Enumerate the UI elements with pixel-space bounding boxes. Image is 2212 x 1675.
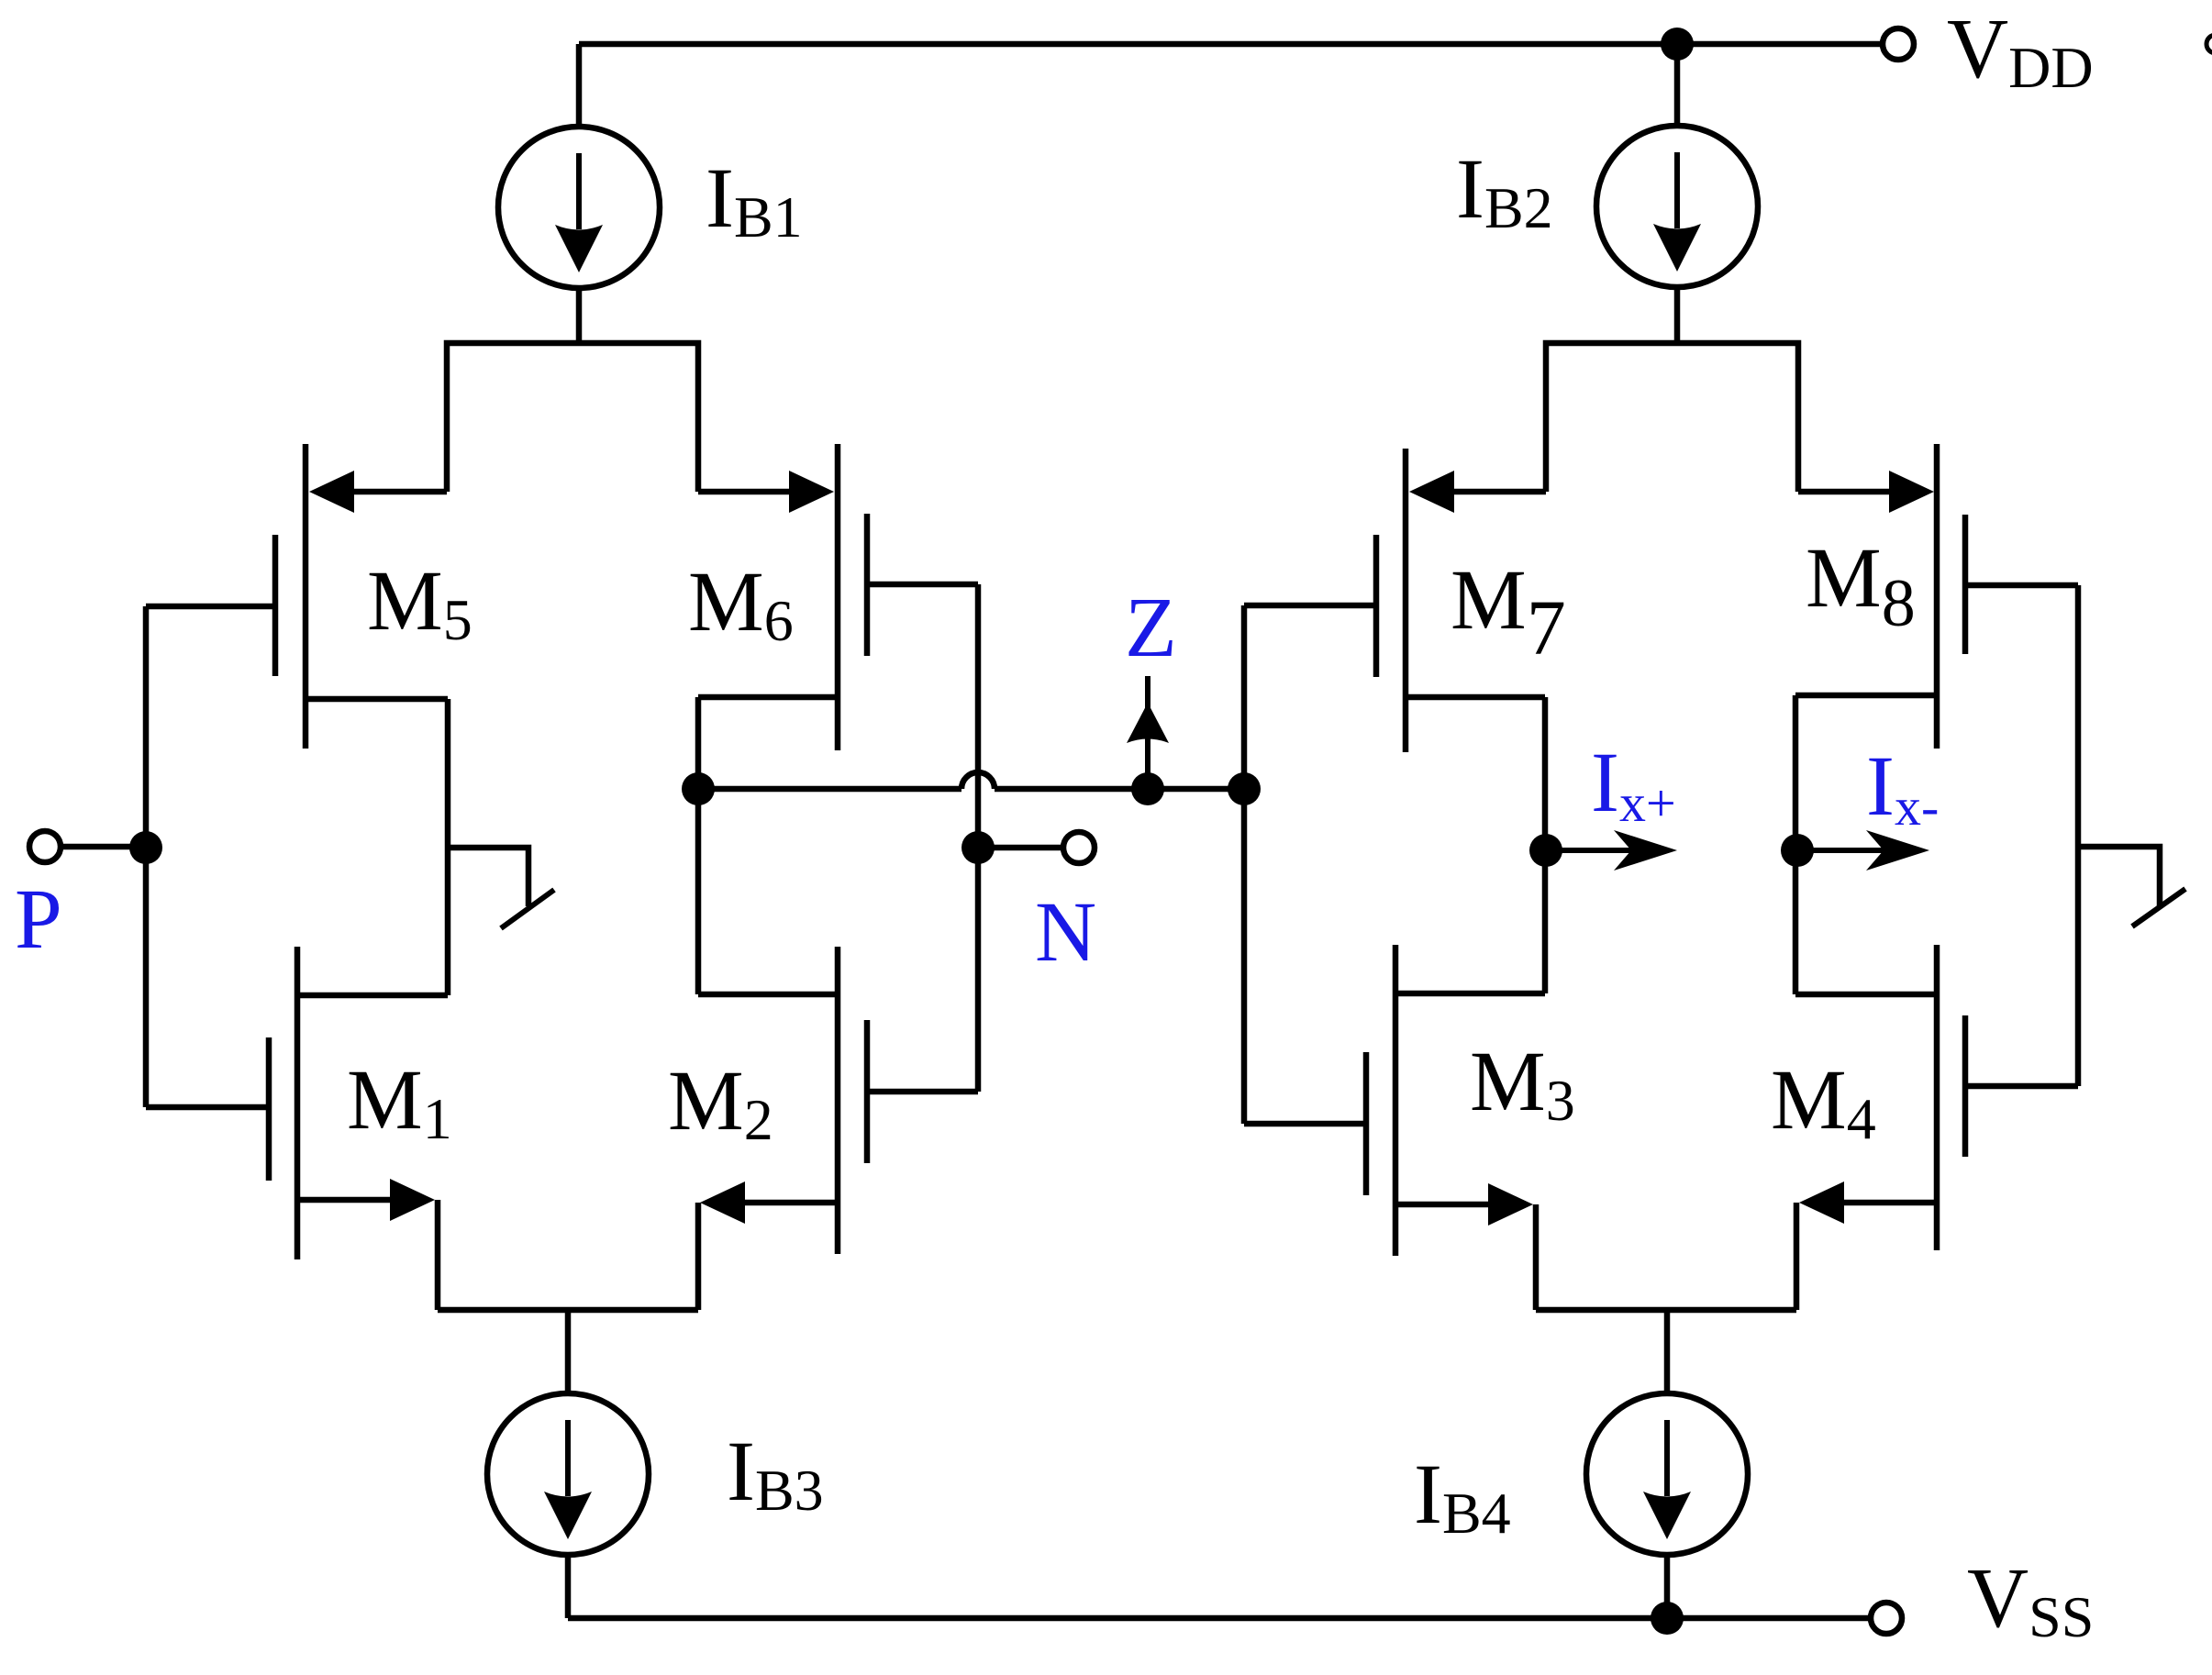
transistor M8 (1795, 444, 2078, 749)
transistor M4 (1795, 945, 2078, 1250)
svg-text:M8: M8 (1806, 531, 1916, 641)
transistor M7 (1244, 449, 1546, 752)
svg-text:M3: M3 (1470, 1035, 1575, 1133)
wire M3 source drop (1533, 1204, 1540, 1310)
wire Z to M7 M3 gate line (1241, 605, 1248, 1124)
terminal N circle (1063, 832, 1095, 863)
arrow Z output indicator (1127, 676, 1169, 789)
wire M1 source drop (435, 1200, 441, 1310)
wire right tail bus (1536, 1307, 1796, 1314)
wire Z horizontal right segment (995, 786, 1244, 793)
node P junction dot (129, 831, 162, 864)
node VDD junction dot (1661, 28, 1694, 61)
wire VSS rail (568, 1615, 1871, 1622)
wire left tail bus (438, 1307, 698, 1314)
node Z junction dot at gate line (1228, 772, 1261, 805)
wire P gate line (143, 606, 150, 1107)
wire M8 M4 gate line (2075, 585, 2082, 1086)
svg-text:IB3: IB3 (727, 1425, 824, 1523)
wire P stub (61, 844, 146, 850)
arrow Ix- current (1797, 830, 1929, 871)
svg-text:M6: M6 (688, 555, 794, 653)
svg-text:N: N (1035, 885, 1096, 980)
bulk slash mark right (2132, 889, 2185, 926)
svg-text:P: P (15, 872, 62, 967)
wire IB2 top stem (1674, 44, 1681, 128)
wire N stub (978, 845, 1062, 851)
wire hop over N line (961, 772, 995, 789)
current source IB4 (1586, 1393, 1748, 1555)
wire IB2 output bar (1546, 343, 1798, 492)
transistor M1 (146, 947, 448, 1259)
terminal VDD circle (1883, 28, 1914, 60)
svg-text:M2: M2 (668, 1054, 773, 1152)
node Z junction dot at M6 drain wire (682, 772, 715, 805)
wire N gate line (975, 584, 982, 1092)
node Ix- junction dot (1781, 834, 1814, 867)
wire VDD rail (579, 41, 1884, 48)
wire IB3 top stem (565, 1310, 572, 1395)
wire IB4 top stem (1664, 1310, 1671, 1395)
wire M5 drain to M1 drain (445, 699, 451, 995)
node VSS junction dot (1651, 1602, 1684, 1635)
current source IB2 (1596, 126, 1758, 287)
wire left bulk branch (448, 848, 528, 906)
arrow Ix+ current (1546, 830, 1677, 871)
wire M2 source drop (695, 1203, 702, 1310)
wire IB4 bottom stem (1664, 1553, 1671, 1618)
svg-text:M5: M5 (367, 554, 472, 652)
svg-text:VDD: VDD (1947, 2, 2094, 100)
node Ix+ junction dot (1529, 834, 1562, 867)
svg-text:IB1: IB1 (706, 151, 803, 250)
svg-text:IB4: IB4 (1414, 1448, 1511, 1546)
wire M8 drain to M4 drain (1793, 695, 1799, 994)
current source IB3 (487, 1393, 649, 1555)
svg-text:Z: Z (1125, 581, 1177, 675)
wire Z horizontal left segment (698, 786, 961, 793)
svg-text:M7: M7 (1451, 553, 1566, 671)
terminal VSS circle (1871, 1603, 1902, 1634)
wire IB1 output bar (447, 343, 698, 492)
node Z arrow dot (1131, 772, 1164, 805)
bulk slash mark left (501, 890, 554, 928)
wire IB1 bottom stem (576, 286, 583, 343)
svg-text:IB2: IB2 (1456, 142, 1553, 240)
transistor M3 (1244, 945, 1545, 1256)
decor edge arc at right border (2206, 35, 2212, 53)
terminal P circle (29, 831, 61, 862)
wire IB3 bottom stem (565, 1553, 572, 1618)
svg-text:M1: M1 (347, 1053, 452, 1151)
wire right bulk branch (2078, 847, 2160, 907)
svg-text:Ix-: Ix- (1866, 739, 1939, 837)
wire M6 drain to M2 drain (695, 697, 702, 994)
svg-text:Ix+: Ix+ (1591, 736, 1676, 833)
transistor M5 (146, 444, 448, 749)
current source IB1 (498, 127, 660, 288)
node N junction dot (961, 831, 995, 864)
svg-text:M4: M4 (1771, 1053, 1876, 1151)
transistor M6 (698, 444, 978, 750)
wire M7 drain to M3 drain (1542, 697, 1549, 993)
wire M4 source drop (1794, 1203, 1800, 1310)
wire IB2 bottom stem (1674, 285, 1681, 343)
transistor M2 (698, 947, 978, 1254)
svg-text:VSS: VSS (1967, 1551, 2094, 1649)
wire IB1 top stem (576, 44, 583, 128)
